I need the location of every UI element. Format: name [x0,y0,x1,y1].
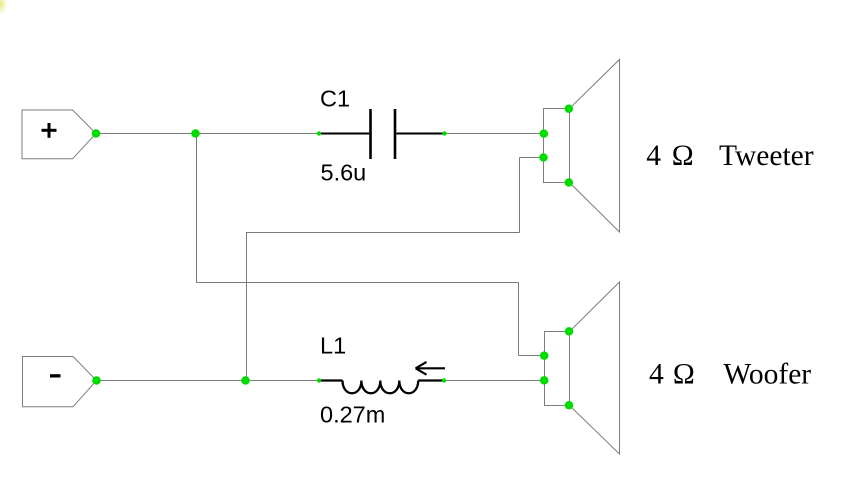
wire: horizontal return run [246,232,520,234]
node: - terminal pin [92,376,101,385]
wire: + terminal to C1 [96,133,320,135]
arrow over L1 [416,362,445,375]
wire: vertical down to bottom junction [246,233,248,381]
svg-text:0.27m: 0.27m [320,401,385,427]
wire: tweeter minus pin stub [520,157,544,159]
terminal - (negative input) [23,357,97,407]
node: woofer frame top [565,327,574,336]
junction node J1 [191,129,200,138]
wire: L1 to woofer [444,380,544,382]
wire: node A vertical down from top junction [196,134,198,283]
svg-text:C1: C1 [320,86,350,112]
node: C1 left pin [317,131,321,135]
wire: horizontal run to woofer branch [196,282,519,284]
node: tweeter frame top [565,105,574,114]
node: tweeter plus pin [540,129,549,138]
node: C1 right pin [442,131,446,135]
svg-text:Woofer: Woofer [723,359,811,391]
svg-text:L1: L1 [320,332,346,358]
node: woofer minus pin [540,376,549,385]
wire: vertical down to woofer plus [518,283,520,356]
label 4 ohm woofer [649,359,811,391]
junction node J2 [241,376,250,385]
inductor L1 [320,381,445,394]
wire: into woofer plus pin [519,355,545,357]
wire: vertical from tweeter minus [519,158,521,233]
svg-text:5.6u: 5.6u [321,160,367,186]
node: woofer plus pin [540,351,549,360]
node: L1 left pin [317,378,321,382]
capacitor C1 [320,109,446,159]
svg-text:Ω: Ω [672,140,694,172]
wire: C1 to tweeter [445,133,544,135]
speaker tweeter [544,60,620,233]
node: tweeter frame bottom [565,178,574,187]
svg-text:4: 4 [646,140,661,172]
svg-text:4: 4 [649,359,664,391]
label 4 ohm tweeter [646,140,813,172]
yellow corner smudge [0,0,11,17]
node: woofer frame bottom [565,401,574,410]
terminal + (positive input) [22,110,96,159]
node: + terminal pin [92,129,101,138]
svg-text:Tweeter: Tweeter [719,140,814,172]
node: L1 right pin [442,378,446,382]
speaker woofer [545,282,620,454]
wire: - terminal to L1 [97,380,321,382]
node: tweeter minus pin [539,153,548,162]
svg-text:Ω: Ω [673,359,695,391]
